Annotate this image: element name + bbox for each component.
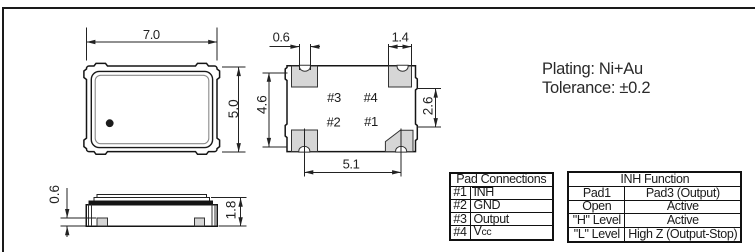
dimension 4.6 arrow line xyxy=(268,73,270,147)
svg-text:#2: #2 xyxy=(327,114,341,129)
lid top step 2 xyxy=(94,198,210,201)
metal lid inner outline xyxy=(95,75,209,143)
plating note text xyxy=(542,60,650,98)
dimension 0.6 arrows xyxy=(66,188,68,218)
svg-text:4.6: 4.6 xyxy=(254,95,269,114)
dimension 5.0 arrow line xyxy=(238,67,240,152)
body outline xyxy=(285,66,417,152)
svg-text:#1: #1 xyxy=(364,114,378,129)
INH function table xyxy=(567,171,742,242)
pad #1 castellation notch xyxy=(396,146,407,152)
svg-text:1.4: 1.4 xyxy=(392,29,409,44)
pad #4 (top-right) xyxy=(389,66,412,87)
pad #4 castellation notch xyxy=(397,65,408,71)
svg-text:1.8: 1.8 xyxy=(224,201,239,220)
dimension 1.8 extension lines xyxy=(211,197,247,199)
svg-text:0.6: 0.6 xyxy=(47,185,62,204)
dimension 0.6 arrows xyxy=(270,46,300,48)
dimension 2.6 arrow line xyxy=(435,89,437,128)
pad #1 (bottom-right, chamfered index corner) xyxy=(385,130,413,151)
INH overline in pad connections table xyxy=(472,186,493,188)
dimension 7.0 arrow line xyxy=(86,41,217,43)
package body outline with corner castellation tabs xyxy=(84,63,220,154)
castellation lines left xyxy=(88,205,90,227)
pad connections table xyxy=(449,172,555,241)
dimension 4.6 extension lines xyxy=(263,72,288,74)
svg-text:#4: #4 xyxy=(364,90,378,105)
pad #3 (top-left) xyxy=(292,66,318,87)
pin 1 index dot xyxy=(106,119,114,127)
castellation lines right xyxy=(211,205,213,227)
dimension 1.4 extension lines (pad width) xyxy=(388,44,390,65)
dimension 5.1 arrow line xyxy=(304,171,401,173)
lid top step 1 xyxy=(97,195,206,198)
dimension 1.8 arrow line xyxy=(240,198,242,227)
frame border left xyxy=(2,7,4,252)
solder pad left xyxy=(97,218,107,226)
dimension 0.6 extension lines xyxy=(61,217,97,219)
svg-text:0.6: 0.6 xyxy=(273,29,290,44)
dimension 2.6 extension lines xyxy=(417,88,442,90)
pad #3 castellation notch xyxy=(299,65,310,71)
dimension 1.4 arrow line xyxy=(389,46,412,48)
frame border top xyxy=(2,7,755,9)
metal lid outer outline xyxy=(91,71,212,147)
dimension 7.0 extension lines xyxy=(85,28,87,61)
pad #2 (bottom-left) xyxy=(292,130,318,151)
solder pad right xyxy=(195,218,205,226)
pad #2 castellation notch xyxy=(299,146,310,152)
svg-text:5.1: 5.1 xyxy=(343,157,360,172)
svg-text:#3: #3 xyxy=(327,90,341,105)
dimension 0.6 extension lines (notch width) xyxy=(298,44,300,70)
svg-text:2.6: 2.6 xyxy=(421,97,436,116)
dimension 5.0 extension lines xyxy=(222,66,246,68)
svg-text:7.0: 7.0 xyxy=(143,27,160,42)
dimension 5.1 extension lines xyxy=(303,129,305,177)
lid seam black band xyxy=(89,201,213,205)
svg-text:5.0: 5.0 xyxy=(226,99,241,118)
body outline xyxy=(86,205,217,227)
